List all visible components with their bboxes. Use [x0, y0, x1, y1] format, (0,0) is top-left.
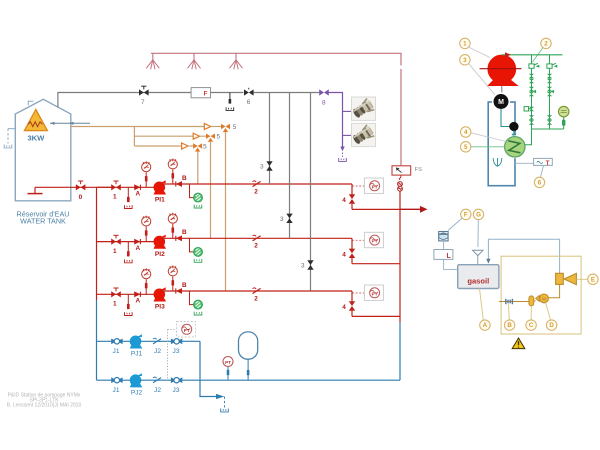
discharge pressure gauge row 1 [168, 159, 177, 169]
svg-text:B. Lenssent 12/2010(J) MAI 20: B. Lenssent 12/2010(J) MAI 2010 [7, 403, 82, 409]
purple pipe to hose couplings [329, 93, 343, 147]
tank suction dip tube [28, 187, 43, 193]
label J1 row 2 [113, 387, 120, 394]
pressure transmitter PT row 3 [364, 285, 383, 300]
discharge jog to header row 3 [352, 315, 400, 317]
footer line 1 [8, 392, 81, 398]
hose coupling photo upper [351, 97, 375, 120]
valve 1 row 3 [111, 288, 121, 297]
hose branch lower [343, 134, 352, 136]
check valve A row 3 [134, 291, 140, 297]
label J2 row 2 [154, 387, 161, 394]
gasoil tank [458, 265, 499, 289]
fuel union filter B [506, 299, 513, 304]
discharge gauge riser row 2 [172, 224, 175, 239]
svg-text:3: 3 [301, 263, 305, 270]
double gauge valve lower right [547, 115, 552, 124]
detail enclosure blue box [488, 102, 515, 186]
callout D [546, 320, 556, 330]
callout F leader [448, 218, 462, 231]
callout 6 [534, 177, 544, 187]
valve 0 [76, 181, 86, 190]
heater label [27, 134, 45, 143]
svg-text:7: 7 [141, 99, 145, 106]
label 3 drop 2 [280, 216, 284, 223]
svg-text:J2: J2 [154, 348, 161, 355]
svg-text:M: M [498, 99, 504, 106]
tan return line lower [134, 145, 181, 147]
valve 1 row 1 [111, 181, 121, 190]
svg-text:B: B [182, 175, 187, 182]
callout 3 [460, 55, 470, 65]
valve 1 row 2 [111, 235, 121, 244]
label 1 row 1 [113, 194, 117, 201]
water tank body [15, 99, 71, 201]
sprinkler 2 [188, 53, 201, 69]
burner nozzle cone [564, 273, 576, 284]
svg-text:gasoil: gasoil [467, 277, 489, 286]
blue drain arrow [216, 394, 224, 399]
valve 8 purple [319, 89, 329, 95]
blue drain dashed cup [221, 397, 229, 412]
callout E [588, 274, 598, 284]
svg-text:1: 1 [113, 301, 117, 308]
check valve J2 row 2 [153, 377, 161, 383]
label PI1 [155, 197, 165, 204]
label A row 1 [135, 191, 140, 198]
svg-text:5: 5 [217, 134, 221, 141]
discharge pipe row 2 [162, 237, 353, 239]
drop into heat exchanger [511, 131, 516, 138]
svg-text:PI3: PI3 [155, 304, 165, 311]
pressure transmitter PT blue rows [177, 322, 196, 337]
svg-text:D: D [549, 322, 554, 329]
svg-text:6: 6 [247, 99, 251, 106]
svg-text:PT: PT [372, 239, 378, 244]
svg-text:5: 5 [203, 144, 207, 151]
svg-text:1: 1 [113, 248, 117, 255]
motor link pipe teal [501, 109, 510, 127]
label B row 2 [182, 229, 187, 236]
svg-text:B: B [182, 229, 187, 236]
sight glass drain cup row 2 [194, 259, 202, 262]
drain with valve and cup row 3 [125, 294, 133, 315]
check valve on lower tan line [182, 143, 188, 149]
green gauge stem [562, 117, 565, 129]
impulse line to PT row 2 [352, 239, 364, 241]
pump PI3 [154, 287, 167, 301]
svg-text:T: T [546, 160, 550, 167]
green manifold column left pipe [531, 55, 533, 129]
label A row 3 [135, 298, 140, 305]
valve J3 row 1 [171, 339, 182, 345]
svg-text:2: 2 [254, 188, 258, 195]
svg-text:G: G [476, 212, 481, 219]
callout C [526, 320, 536, 330]
sight glass flow indicator row 3 [194, 300, 203, 309]
gray vent pipe from tank [58, 93, 244, 108]
label J3 row 2 [173, 387, 180, 394]
sight glass branch row 1 [190, 184, 194, 198]
svg-text:4: 4 [464, 129, 468, 136]
valve J3 row 2 [171, 377, 182, 383]
blue row 1 discharge pipe [140, 340, 200, 342]
suction header vertical red [96, 187, 98, 300]
valve J1 row 2 [111, 377, 122, 383]
sight glass flow indicator row 2 [194, 248, 203, 257]
svg-text:J3: J3 [173, 387, 180, 394]
svg-text:3: 3 [260, 164, 264, 171]
hose branch upper [343, 110, 352, 112]
label J3 row 1 [173, 348, 180, 355]
discharge pressure gauge row 3 [168, 266, 177, 276]
check valve 2 row 2 [253, 235, 261, 241]
callout E leader [576, 278, 587, 280]
check valve B row 3 [176, 288, 182, 294]
drain with valve and cup row 2 [125, 242, 133, 263]
svg-text:PT: PT [225, 360, 231, 365]
blue drop from row 1 [200, 341, 216, 396]
discharge gauge riser row 1 [172, 170, 175, 185]
discharge pipe row 3 [162, 290, 353, 292]
svg-text:J2: J2 [154, 387, 161, 394]
svg-text:B: B [182, 282, 187, 289]
detail pump to motor link [501, 86, 503, 95]
gas bottle symbol [439, 232, 448, 241]
discharge header vertical red [399, 191, 401, 322]
impulse line to PT row 1 [352, 185, 364, 187]
fuel filter capsule C [529, 296, 536, 306]
coupling dot [510, 122, 518, 130]
callout 5 leader green [471, 146, 505, 148]
sprinkler 1 [146, 53, 159, 69]
svg-text:E: E [591, 276, 595, 283]
label PJ2 [131, 390, 143, 397]
valve 6 [244, 88, 254, 96]
svg-text:A: A [483, 322, 488, 329]
heater element 3KW [24, 110, 47, 131]
three-way valve 5 middle [200, 134, 215, 142]
flow switch FS [392, 166, 411, 175]
pressure transmitter PT row 1 [364, 178, 383, 193]
sprinkler 3 [230, 53, 243, 69]
svg-text:FS: FS [415, 167, 423, 173]
label 6 [247, 99, 251, 106]
tan return line upper [71, 126, 205, 128]
double gauge valve lower left [529, 115, 534, 124]
purple drain valve and cup [339, 147, 347, 162]
svg-text:PJ1: PJ1 [131, 351, 143, 358]
svg-text:M: M [542, 297, 546, 302]
suction gauge riser row 3 [145, 279, 148, 294]
callout A leader [480, 289, 484, 320]
level gauge link to tank [444, 259, 458, 269]
green gauge dial [559, 106, 569, 116]
svg-text:J3: J3 [173, 348, 180, 355]
label B row 1 [182, 175, 187, 182]
label 4 row 2 [342, 251, 346, 258]
label A row 2 [135, 245, 140, 252]
suction gauge riser row 1 [145, 172, 148, 187]
svg-text:3: 3 [463, 57, 467, 64]
gray drop 2 with valve 3 [286, 93, 292, 239]
label 3 drop 3 [301, 263, 305, 270]
valve 7 [139, 86, 149, 95]
warning triangle [512, 338, 525, 349]
check valve 2 row 1 [253, 181, 261, 187]
label PI2 [155, 251, 165, 258]
filling funnel [473, 250, 483, 264]
svg-text:4: 4 [342, 197, 346, 204]
svg-text:PI1: PI1 [155, 197, 165, 204]
check valve on middle tan line [193, 133, 199, 139]
callout D leader [546, 303, 551, 320]
suction pressure gauge row 2 [142, 216, 151, 226]
svg-text:4: 4 [342, 251, 346, 258]
isolation cock right [547, 63, 557, 68]
pressure transmitter PT row 2 [364, 232, 383, 247]
gray drop 3 with valve 3 [307, 93, 313, 291]
burner enclosure [501, 256, 581, 334]
green discharge header [502, 54, 563, 56]
svg-text:8: 8 [322, 100, 326, 107]
svg-text:PI2: PI2 [155, 251, 165, 258]
fuel pump link [548, 284, 560, 297]
tan return line middle [134, 135, 193, 137]
fuel suction line [499, 301, 529, 303]
svg-text:PT: PT [184, 328, 190, 333]
callout G leader [477, 220, 479, 247]
label PI3 [155, 304, 165, 311]
three way gauge valve left [529, 87, 536, 96]
tan drop to pump row 3 [225, 132, 227, 291]
hose coupling photo lower [351, 123, 375, 146]
callout G [473, 209, 483, 219]
tan drop to pump row 1 [197, 152, 199, 184]
tank outlet pipe [35, 186, 111, 188]
thermostat link line [515, 162, 534, 164]
svg-text:PT: PT [372, 184, 378, 189]
double gauge valve upper right [547, 74, 552, 83]
footer line 3 [7, 403, 82, 409]
impulse line to PT row 3 [352, 292, 364, 294]
relief under FS [398, 175, 403, 191]
valve 4 row 3 [349, 291, 355, 316]
callout 2 leader [533, 48, 544, 63]
label 5 upper [233, 124, 237, 131]
callout 4 [461, 127, 471, 137]
discharge gauge riser row 3 [172, 277, 175, 292]
red flow arrow on green header [505, 52, 511, 57]
drain with valve and cup row 1 [125, 187, 133, 208]
svg-text:J1: J1 [113, 348, 120, 355]
label 3 drop 1 [260, 164, 264, 171]
svg-text:5: 5 [464, 144, 468, 151]
label J2 row 1 [154, 348, 161, 355]
label 4 row 1 [342, 197, 346, 204]
heat exchanger circle [503, 135, 526, 158]
blue long discharge pipe [200, 379, 400, 381]
level gauge L box [434, 250, 453, 260]
label 1 row 3 [113, 301, 117, 308]
pump row 3 suction pipe [97, 293, 155, 295]
label 7 [141, 99, 145, 106]
label 2 row 1 [254, 188, 258, 195]
detail pump red [480, 55, 522, 86]
discharge jog to header row 1 [352, 208, 400, 210]
callout C leader [530, 306, 532, 320]
thermostat T box [534, 158, 553, 167]
green manifold bottom link [525, 129, 564, 145]
label J1 row 1 [113, 348, 120, 355]
callout A [480, 320, 490, 330]
valve J1 row 1 [111, 339, 122, 345]
discharge jog to header row 2 [352, 263, 400, 265]
gray drop 1 with valve 3 [266, 93, 272, 185]
pump PJ1 [130, 334, 143, 348]
check valve J2 row 1 [153, 338, 161, 344]
enclosure drain trident [493, 158, 502, 167]
svg-text:1: 1 [113, 194, 117, 201]
svg-text:F: F [204, 91, 208, 98]
check valve A row 1 [134, 184, 140, 190]
isolation cock left [529, 63, 539, 68]
callout F [461, 209, 471, 219]
svg-text:A: A [135, 245, 140, 252]
svg-text:2: 2 [254, 243, 258, 250]
label 2 row 2 [254, 243, 258, 250]
pump PJ2 [130, 373, 143, 387]
svg-text:1: 1 [463, 41, 467, 48]
valve 4 row 2 [349, 238, 355, 263]
suction pressure gauge row 3 [142, 268, 151, 278]
label 5 lower [203, 144, 207, 151]
svg-text:L: L [447, 253, 452, 260]
valve 4 row 1 [349, 184, 355, 209]
fuel return line [486, 239, 559, 273]
pump row 1 suction pipe [97, 186, 155, 188]
check valve A row 2 [134, 239, 140, 245]
svg-text:6: 6 [538, 180, 542, 187]
sight glass drain cup row 1 [194, 205, 202, 208]
label 2 row 3 [254, 295, 258, 302]
double gauge valve upper left [529, 74, 534, 83]
drain under F with valve and cup [226, 93, 234, 111]
tan branch vertical [133, 127, 135, 147]
footer line 2 [29, 397, 59, 403]
expansion vessel [239, 332, 258, 380]
blue row 2 suction pipe [97, 379, 131, 381]
suction pressure gauge row 1 [142, 161, 151, 171]
label 5 middle [217, 134, 221, 141]
check valve B row 2 [176, 235, 182, 241]
label B row 3 [182, 282, 187, 289]
svg-text:0: 0 [79, 194, 83, 201]
check valve on upper tan line [204, 124, 210, 130]
suction header vertical blue [96, 300, 98, 380]
callout 2 [541, 38, 551, 48]
sight glass branch row 3 [190, 291, 194, 305]
green manifold column right pipe [549, 55, 551, 129]
svg-text:PJ2: PJ2 [131, 390, 143, 397]
heater feed line with arrows [50, 122, 90, 125]
sight glass branch row 2 [190, 238, 194, 252]
tank caption [17, 209, 70, 225]
label 1 row 2 [113, 248, 117, 255]
three-way valve 5 lower [188, 143, 202, 151]
svg-text:A: A [135, 191, 140, 198]
check valve 2 row 3 [253, 288, 261, 294]
svg-text:2: 2 [254, 295, 258, 302]
discharge pressure gauge row 2 [168, 213, 177, 223]
svg-text:J1: J1 [113, 387, 120, 394]
three-way valve 5 upper [211, 124, 230, 132]
pump PI2 [154, 235, 167, 249]
instrument dotted line blue rows [168, 330, 176, 381]
callout B leader [508, 304, 511, 320]
sight glass drain cup row 3 [194, 312, 202, 315]
label 8 [322, 100, 326, 107]
burner nozzle holder [556, 273, 564, 284]
check valve B row 1 [176, 181, 182, 187]
pump row 2 suction pipe [97, 241, 155, 243]
tan drop to pump row 2 [210, 142, 212, 238]
svg-text:3KW: 3KW [27, 134, 45, 143]
label 4 row 3 [342, 304, 346, 311]
filter F box [191, 88, 210, 98]
motor M [493, 93, 510, 110]
sampling tap left column [524, 107, 534, 112]
label 0 [79, 194, 83, 201]
svg-text:A: A [135, 298, 140, 305]
svg-text:2: 2 [544, 41, 548, 48]
svg-text:3: 3 [280, 216, 284, 223]
callout 1 leader [469, 47, 491, 58]
callout 5 [461, 142, 471, 152]
bottle to level gauge link [443, 241, 445, 250]
suction gauge riser row 2 [145, 227, 148, 242]
svg-text:C: C [529, 322, 534, 329]
label FS [415, 167, 423, 173]
three way gauge valve right [547, 87, 554, 96]
sight glass flow indicator row 1 [194, 193, 203, 202]
svg-text:WATER TANK: WATER TANK [20, 217, 66, 226]
pump PI1 [154, 180, 167, 194]
fuel pump motor D [536, 294, 549, 303]
tank level tap line [4, 129, 15, 148]
gray manifold segment to valve 8 [254, 92, 320, 94]
main outlet arrow [400, 206, 428, 213]
label PJ1 [131, 351, 143, 358]
svg-text:5: 5 [233, 124, 237, 131]
PT gauge on blue line [223, 357, 233, 381]
svg-text:PT: PT [372, 291, 378, 296]
svg-text:4: 4 [342, 304, 346, 311]
blue row 1 suction pipe [97, 340, 131, 342]
svg-text:F: F [464, 212, 468, 219]
sprinkler header [151, 53, 401, 165]
callout 4 leader [471, 133, 506, 142]
discharge pipe row 1 [162, 183, 353, 185]
callout 6 leader [541, 165, 544, 177]
blue row 2 discharge pipe [140, 379, 200, 381]
callout 3 leader [469, 63, 497, 96]
discharge header vertical blue [399, 322, 401, 380]
callout B [504, 320, 514, 330]
svg-text:B: B [507, 322, 512, 329]
callout 1 [460, 38, 470, 48]
